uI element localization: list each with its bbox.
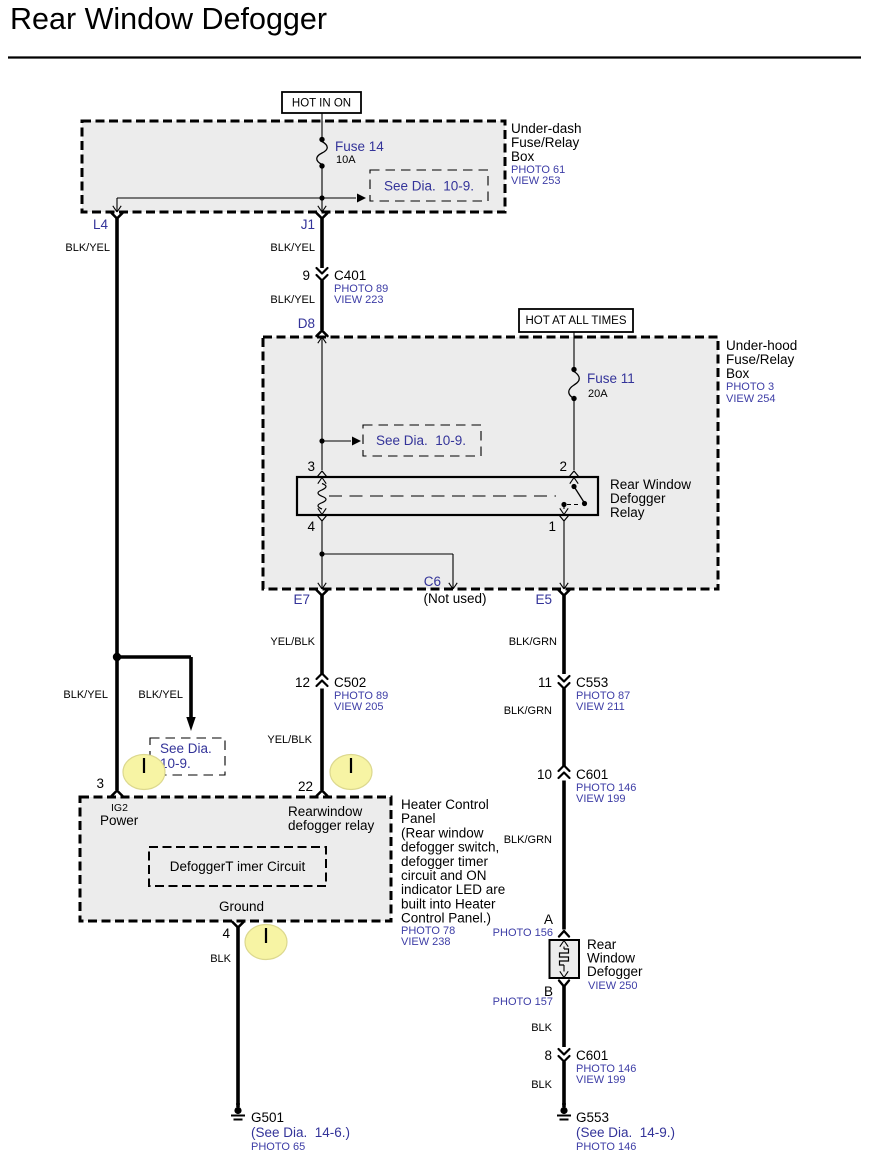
svg-text:1: 1 <box>548 519 556 534</box>
svg-text:C6: C6 <box>424 574 441 589</box>
svg-text:VIEW 254: VIEW 254 <box>726 393 776 405</box>
svg-text:See Dia. 10-9.: See Dia. 10-9. <box>376 433 466 448</box>
svg-text:YEL/BLK: YEL/BLK <box>267 734 312 746</box>
svg-text:2: 2 <box>559 459 567 474</box>
svg-text:11: 11 <box>538 675 552 690</box>
svg-text:defogger relay: defogger relay <box>288 818 375 833</box>
svg-text:BLK/GRN: BLK/GRN <box>504 705 552 717</box>
svg-text:BLK/YEL: BLK/YEL <box>65 242 110 254</box>
svg-text:BLK: BLK <box>210 953 231 965</box>
svg-text:L4: L4 <box>93 217 109 232</box>
svg-text:(Not used): (Not used) <box>423 591 486 606</box>
svg-text:Under-hood: Under-hood <box>726 338 797 353</box>
svg-text:YEL/BLK: YEL/BLK <box>270 636 315 648</box>
svg-text:Fuse/Relay: Fuse/Relay <box>511 135 580 150</box>
svg-text:10A: 10A <box>336 154 356 166</box>
svg-text:E7: E7 <box>293 592 310 607</box>
svg-text:built into Heater: built into Heater <box>401 896 496 911</box>
svg-text:3: 3 <box>96 776 104 791</box>
svg-text:BLK/YEL: BLK/YEL <box>63 689 108 701</box>
svg-text:VIEW 199: VIEW 199 <box>576 793 626 805</box>
svg-text:C601: C601 <box>576 1048 608 1063</box>
svg-text:Control Panel.): Control Panel.) <box>401 911 491 926</box>
svg-text:defogger timer: defogger timer <box>401 854 489 869</box>
svg-text:Power: Power <box>100 813 139 828</box>
svg-text:22: 22 <box>298 779 313 794</box>
svg-text:BLK/YEL: BLK/YEL <box>270 294 315 306</box>
svg-text:BLK/GRN: BLK/GRN <box>504 834 552 846</box>
svg-text:HOT AT ALL TIMES: HOT AT ALL TIMES <box>526 315 627 327</box>
svg-text:Panel: Panel <box>401 811 436 826</box>
svg-text:Rear Window: Rear Window <box>610 477 691 492</box>
svg-text:J1: J1 <box>301 217 315 232</box>
svg-text:20A: 20A <box>588 388 608 400</box>
svg-text:BLK/YEL: BLK/YEL <box>138 689 183 701</box>
svg-text:10: 10 <box>537 767 552 782</box>
svg-text:Defogger: Defogger <box>587 964 643 979</box>
svg-text:Fuse 11: Fuse 11 <box>587 371 635 386</box>
svg-text:G501: G501 <box>251 1110 284 1125</box>
svg-text:D8: D8 <box>298 316 315 331</box>
svg-text:Defogger: Defogger <box>610 491 666 506</box>
svg-text:PHOTO 146: PHOTO 146 <box>576 1141 636 1153</box>
svg-text:VIEW 253: VIEW 253 <box>511 175 561 187</box>
svg-text:9: 9 <box>302 268 310 283</box>
svg-text:PHOTO 156: PHOTO 156 <box>493 927 553 939</box>
svg-text:VIEW 238: VIEW 238 <box>401 936 451 948</box>
svg-text:Box: Box <box>511 149 535 164</box>
svg-text:Under-dash: Under-dash <box>511 121 582 136</box>
svg-text:G553: G553 <box>576 1110 609 1125</box>
svg-text:circuit and ON: circuit and ON <box>401 868 487 883</box>
svg-text:Fuse/Relay: Fuse/Relay <box>726 352 795 367</box>
svg-text:VIEW 205: VIEW 205 <box>334 701 384 713</box>
svg-text:Box: Box <box>726 366 750 381</box>
svg-text:E5: E5 <box>535 592 552 607</box>
svg-text:See Dia. 10-9.: See Dia. 10-9. <box>384 179 474 194</box>
svg-text:Ground: Ground <box>219 899 264 914</box>
svg-text:VIEW 211: VIEW 211 <box>576 701 625 713</box>
svg-text:4: 4 <box>307 519 315 534</box>
svg-text:PHOTO 3: PHOTO 3 <box>726 381 774 393</box>
svg-text:VIEW 223: VIEW 223 <box>334 294 384 306</box>
svg-text:See Dia.: See Dia. <box>160 741 212 756</box>
svg-text:HOT IN ON: HOT IN ON <box>292 98 351 110</box>
svg-text:VIEW 250: VIEW 250 <box>588 980 638 992</box>
svg-text:Rearwindow: Rearwindow <box>288 804 363 819</box>
svg-text:12: 12 <box>295 675 310 690</box>
svg-text:DefoggerT imer Circuit: DefoggerT imer Circuit <box>170 859 306 874</box>
svg-text:BLK/GRN: BLK/GRN <box>509 636 557 648</box>
svg-text:(See Dia. 14-9.): (See Dia. 14-9.) <box>576 1125 675 1140</box>
svg-text:C601: C601 <box>576 767 608 782</box>
svg-text:defogger switch,: defogger switch, <box>401 840 499 855</box>
svg-text:3: 3 <box>307 459 315 474</box>
svg-text:Heater Control: Heater Control <box>401 797 489 812</box>
svg-text:BLK/YEL: BLK/YEL <box>270 242 315 254</box>
svg-text:BLK: BLK <box>531 1079 552 1091</box>
svg-text:Relay: Relay <box>610 505 645 520</box>
svg-text:A: A <box>544 912 553 927</box>
svg-text:C401: C401 <box>334 268 366 283</box>
svg-text:4: 4 <box>222 926 230 941</box>
svg-text:BLK: BLK <box>531 1022 552 1034</box>
svg-text:C553: C553 <box>576 675 608 690</box>
svg-text:indicator LED are: indicator LED are <box>401 882 505 897</box>
svg-text:Fuse 14: Fuse 14 <box>335 139 384 154</box>
svg-text:C502: C502 <box>334 675 366 690</box>
svg-text:(See Dia. 14-6.): (See Dia. 14-6.) <box>251 1125 350 1140</box>
svg-text:PHOTO 157: PHOTO 157 <box>493 996 553 1008</box>
svg-text:VIEW 199: VIEW 199 <box>576 1074 626 1086</box>
svg-text:(Rear window: (Rear window <box>401 825 484 840</box>
svg-text:PHOTO 65: PHOTO 65 <box>251 1141 305 1153</box>
svg-text:8: 8 <box>544 1048 552 1063</box>
svg-text:Rear Window Defogger: Rear Window Defogger <box>10 2 327 36</box>
